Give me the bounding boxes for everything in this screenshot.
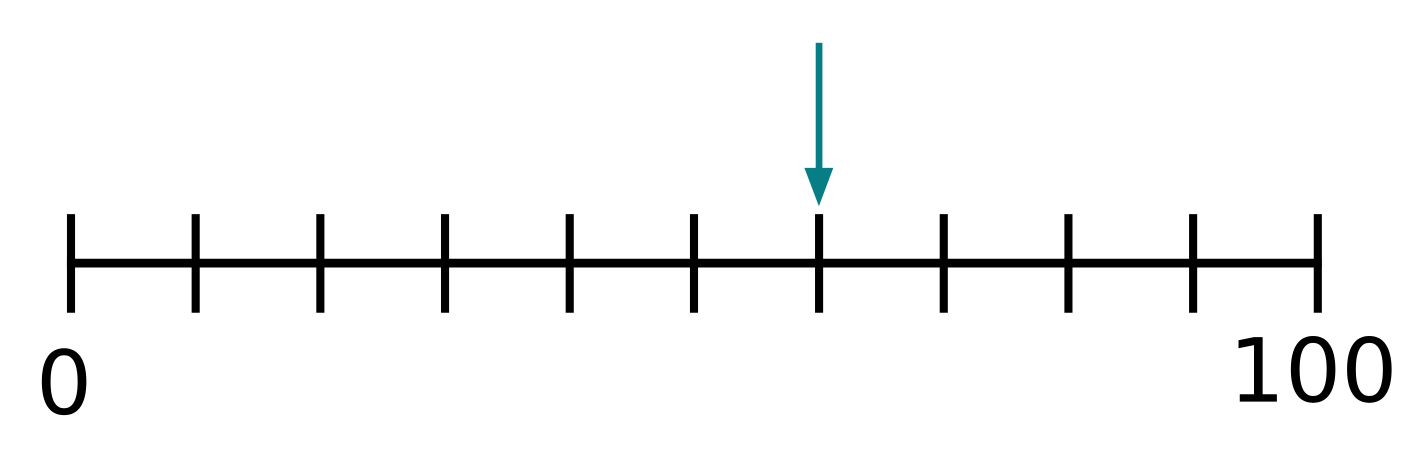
tick mark 100	[1314, 214, 1322, 313]
arrow head pointing at 60	[804, 168, 833, 206]
label 100	[1239, 336, 1392, 403]
tick mark 0	[67, 214, 75, 313]
tick mark 40	[566, 214, 574, 313]
number line axis	[67, 259, 1322, 268]
tick mark 80	[1064, 214, 1072, 313]
tick mark 60	[815, 214, 823, 313]
tick mark 20	[316, 214, 324, 313]
label 0	[42, 348, 87, 415]
tick mark 70	[940, 214, 948, 313]
tick mark 10	[192, 214, 200, 313]
tick mark 90	[1189, 214, 1197, 313]
tick mark 50	[690, 214, 698, 313]
tick mark 30	[441, 214, 449, 313]
arrow shaft pointing at 60	[816, 43, 823, 171]
